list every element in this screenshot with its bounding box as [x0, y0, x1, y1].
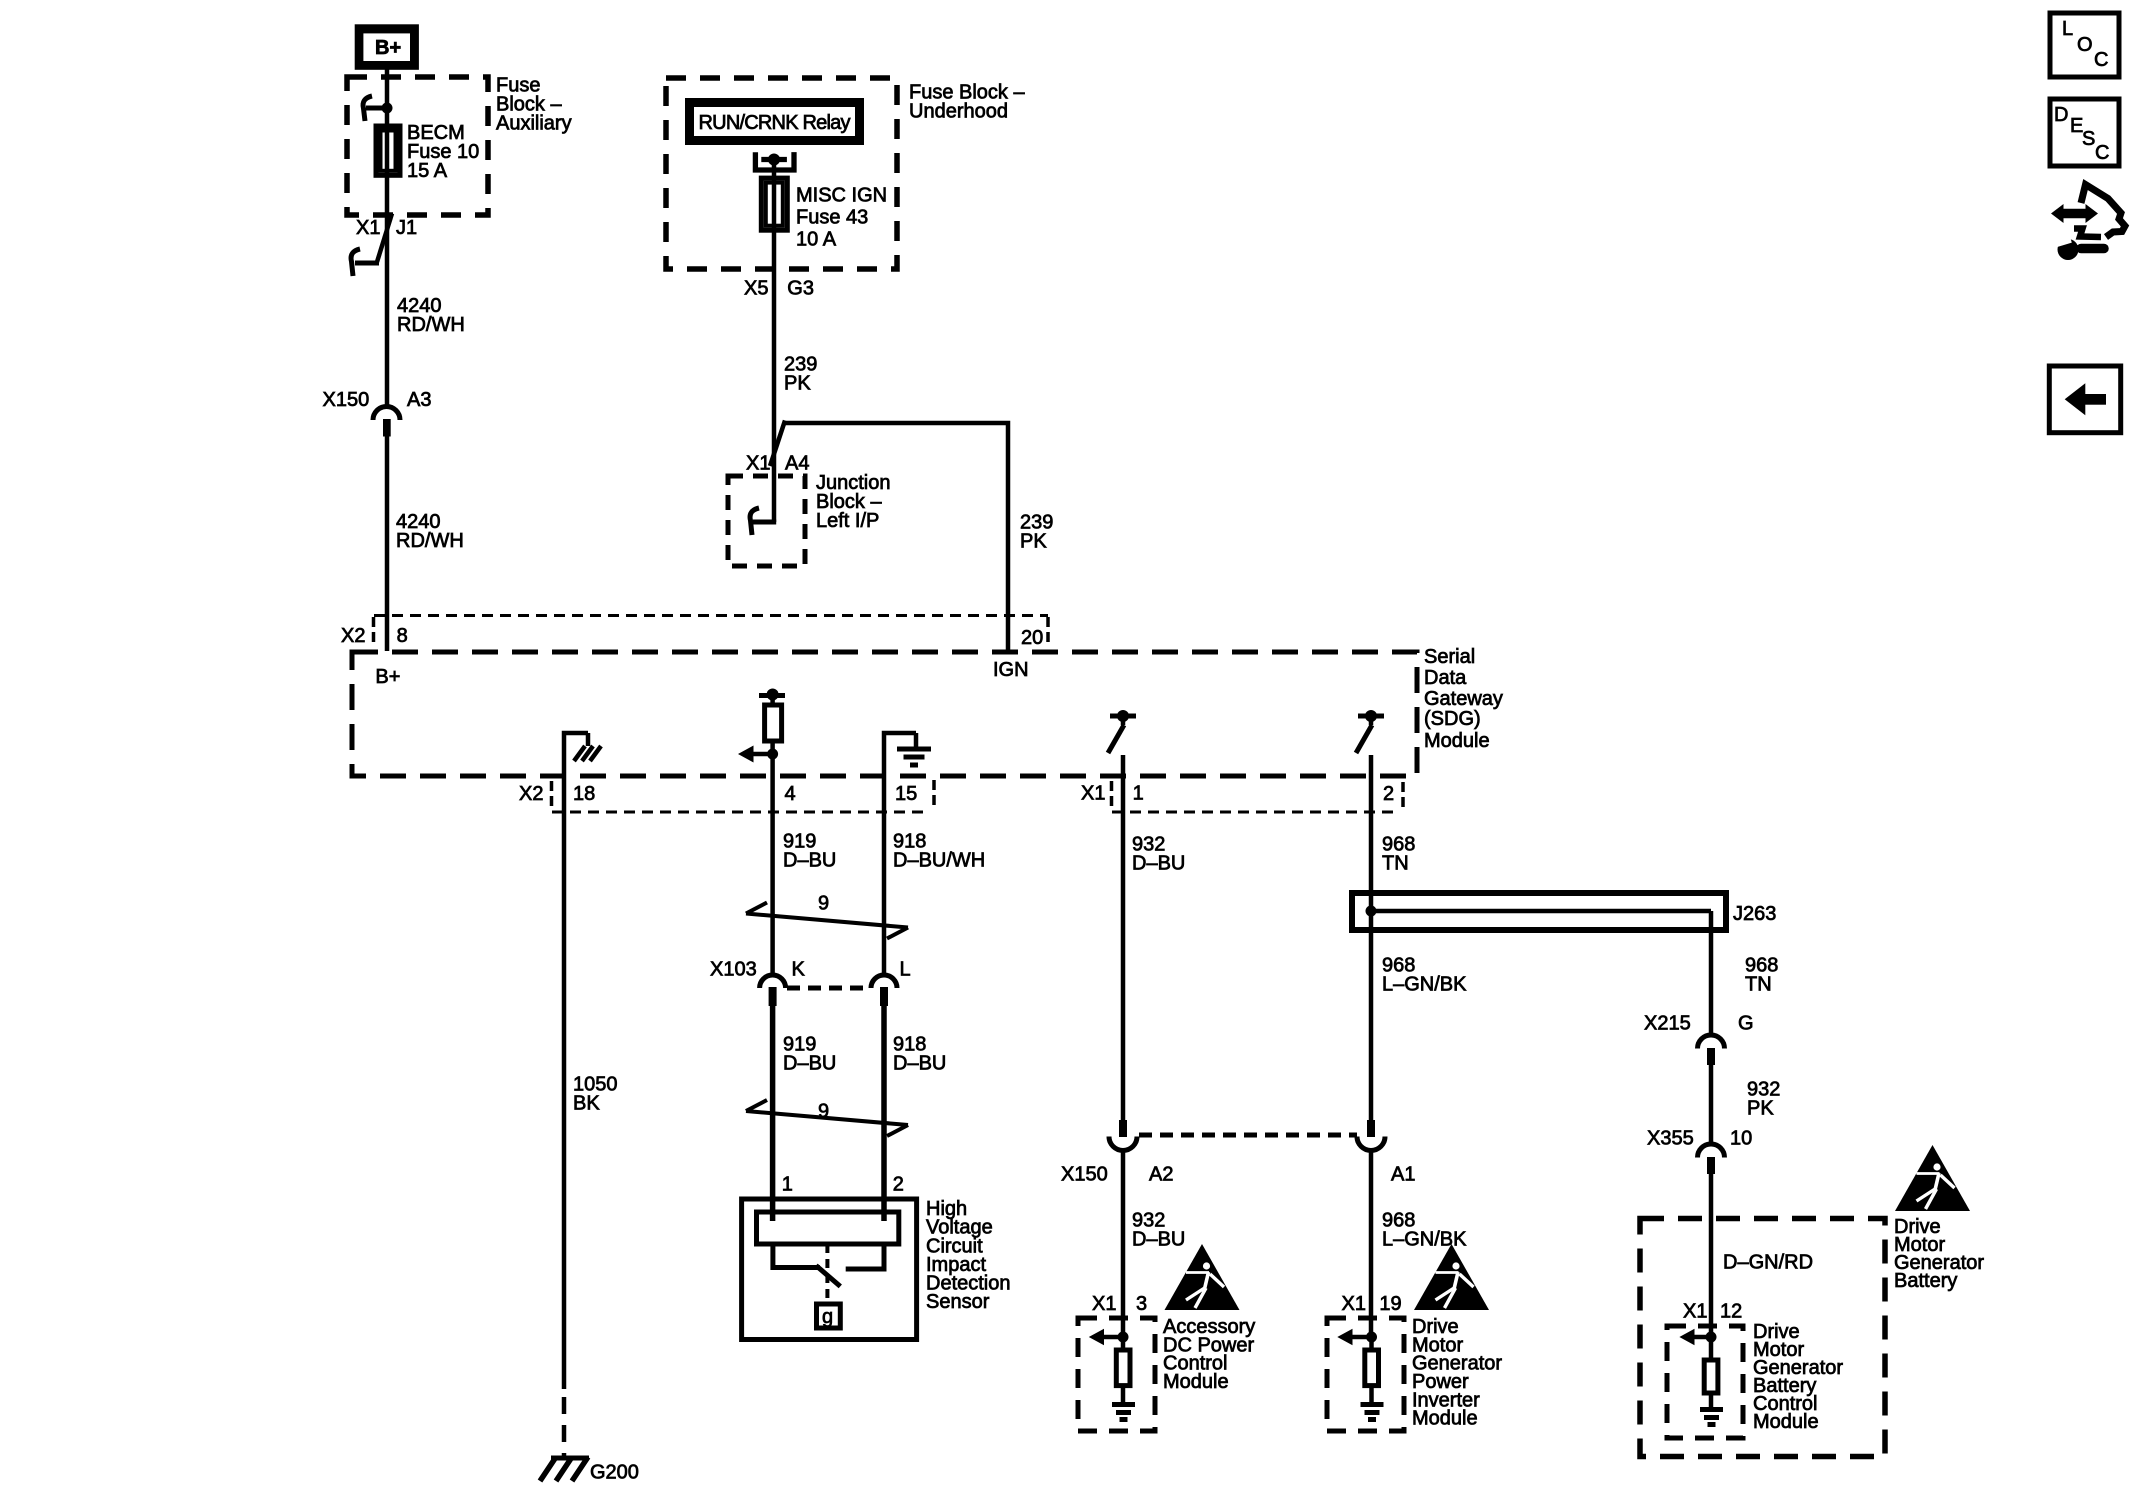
label: X215 G: [1644, 1013, 1754, 1035]
node: bus junction dot inside fuse block: [382, 103, 393, 114]
wire: 932 PK from X215 to X355: [1709, 1064, 1714, 1145]
switch: impact sensor blade: [816, 1266, 840, 1287]
svg-text:10 A: 10 A: [796, 229, 837, 251]
wire: 1050 BK from SDG pin 18 to G200: [562, 776, 567, 1389]
svg-text:X103: X103: [710, 959, 757, 981]
label: Drive Motor Generator Power Inverter Module: [1412, 1316, 1502, 1430]
resistor: SDG serial data pull-up at pin 4: [759, 689, 785, 742]
icon: DESC navigation box: [2050, 99, 2119, 166]
svg-text:D–BU: D–BU: [1132, 1228, 1185, 1250]
svg-text:X215: X215: [1644, 1013, 1691, 1035]
label: X103 K L: [710, 959, 911, 981]
twisted pair symbol 9 (upper): [746, 903, 908, 939]
resistor: accessory module load: [1116, 1337, 1130, 1404]
svg-text:MISC IGN: MISC IGN: [796, 185, 887, 207]
svg-text:X1: X1: [1092, 1293, 1116, 1315]
svg-text:C: C: [2095, 142, 2109, 164]
label: Junction Block - Left I/P: [816, 472, 891, 532]
svg-text:D–BU: D–BU: [783, 849, 836, 871]
fuse BECM Fuse 10 15 A: [376, 126, 400, 175]
node: junction dot battery control module: [1706, 1332, 1717, 1343]
svg-text:Module: Module: [1753, 1411, 1819, 1433]
connector X103 K: [760, 975, 786, 1006]
svg-text:Battery: Battery: [1894, 1270, 1957, 1292]
svg-text:D–BU: D–BU: [783, 1052, 836, 1074]
wire: dashed actuator line of impact sensor: [825, 1244, 829, 1303]
connector X215 G: [1698, 1035, 1725, 1065]
label: X355 10: [1647, 1128, 1752, 1150]
module box: drive motor generator power inverter module: [1327, 1318, 1404, 1431]
wire: sensor internal left bracket: [773, 1244, 820, 1268]
SDG module connector row X2 top: thin dashed line: [374, 614, 1048, 617]
icon: back arrow box: [2049, 366, 2120, 433]
fuse block auxiliary dashed box: [347, 77, 488, 215]
svg-text:9: 9: [818, 1100, 829, 1122]
svg-text:J1: J1: [396, 217, 417, 239]
arrow: signal arrow accessory module: [1089, 1329, 1123, 1346]
svg-text:Auxiliary: Auxiliary: [496, 112, 572, 134]
svg-text:15 A: 15 A: [407, 160, 448, 182]
fuse MISC IGN Fuse 43 10 A: [761, 178, 787, 230]
svg-text:(SDG): (SDG): [1424, 708, 1481, 730]
label: wire 919 D-BU (upper): [783, 831, 836, 872]
switch: SDG internal switch at pin 2: [1356, 710, 1384, 753]
switch: SDG internal switch at pin 1: [1108, 710, 1136, 753]
label: X150 A3: [323, 389, 432, 411]
wire: 4240 RD/WH from X150 A3 to SDG module pin 8: [385, 436, 390, 651]
svg-text:Module: Module: [1424, 730, 1490, 752]
svg-text:Gateway: Gateway: [1424, 688, 1503, 710]
wire: IGN branch to SDG pin 20: [784, 423, 1008, 651]
svg-text:Underhood: Underhood: [909, 100, 1008, 122]
svg-text:A4: A4: [785, 453, 809, 475]
svg-text:A2: A2: [1149, 1164, 1173, 1186]
svg-text:X2: X2: [519, 783, 543, 805]
module box: Serial Data Gateway (SDG) Module dashed border: [352, 652, 1417, 776]
wire: D-GN/RD from X355 into drive motor generator battery: [1709, 1174, 1714, 1337]
connector tick right of pin 15: [932, 780, 936, 810]
svg-text:X150: X150: [1061, 1164, 1108, 1186]
SDG module connector row bottom right segment: thin dashed line: [1112, 811, 1398, 814]
svg-text:D–GN/RD: D–GN/RD: [1723, 1252, 1813, 1274]
svg-text:2: 2: [893, 1174, 904, 1196]
arrow: serial data signal arrow at pin 4: [738, 746, 773, 763]
connector X103 L: [871, 975, 897, 1006]
svg-text:19: 19: [1379, 1293, 1401, 1315]
label: pin names B+ and IGN inside module: [375, 659, 1028, 688]
wire: SDG pin 4 internal lead: [770, 741, 775, 776]
ground: chassis ground symbol at pin 18: [574, 733, 601, 761]
resistor: inverter module load: [1365, 1337, 1379, 1404]
svg-text:Sensor: Sensor: [926, 1291, 990, 1313]
wire: 968 TN from SDG pin 2 into J263: [1369, 755, 1374, 911]
node: junction dot accessory module: [1118, 1332, 1129, 1343]
connector crossing X1 J1: slash: [377, 214, 392, 263]
label: X1 3 (accessory module pins): [1092, 1293, 1147, 1315]
svg-text:g: g: [822, 1306, 833, 1328]
svg-text:X1: X1: [1342, 1293, 1366, 1315]
label: wire 968 L-GN/BK (lower): [1382, 1210, 1467, 1251]
label: Drive Motor Generator Battery: [1894, 1216, 1984, 1292]
warning triangle: high voltage (accessory module): [1165, 1244, 1240, 1310]
label: twisted pair note 9 (lower): [818, 1100, 829, 1122]
svg-text:Left I/P: Left I/P: [816, 510, 879, 532]
svg-text:X1: X1: [356, 217, 380, 239]
svg-text:X5: X5: [744, 278, 768, 300]
svg-text:TN: TN: [1745, 973, 1772, 995]
node: g mass reference box: [817, 1304, 841, 1328]
wire: dashed tail of 1050 BK at G200: [562, 1397, 567, 1458]
label: X2 18 4 15 X1 1 2 (bottom connector row): [519, 783, 1394, 805]
svg-text:O: O: [2077, 34, 2093, 56]
label: X5 G3: [744, 278, 814, 300]
node: junction dot inverter module: [1366, 1332, 1377, 1343]
svg-text:L: L: [900, 959, 911, 981]
label: X2 8 20 (top connector row): [341, 625, 1043, 649]
svg-text:PK: PK: [1747, 1097, 1774, 1119]
svg-text:TN: TN: [1382, 852, 1409, 874]
label: Serial Data Gateway (SDG) Module: [1424, 646, 1503, 752]
svg-text:20: 20: [1021, 627, 1043, 649]
svg-text:G3: G3: [787, 278, 814, 300]
label: MISC IGN Fuse 43 10 A: [796, 185, 887, 251]
connector X150 A2: [1109, 1120, 1137, 1151]
svg-text:D–BU: D–BU: [893, 1052, 946, 1074]
svg-text:A3: A3: [407, 389, 431, 411]
svg-text:8: 8: [397, 625, 408, 647]
relay RUN/CRNK Relay: [685, 98, 864, 145]
svg-text:D–BU: D–BU: [1132, 852, 1185, 874]
label: wire 239 PK (left): [784, 354, 817, 395]
wire: dashed connector link K to L: [787, 986, 870, 991]
label: Fuse Block - Auxiliary: [496, 75, 572, 135]
label: G200: [590, 1462, 639, 1484]
connector crossing X1 A4: slash: [770, 421, 785, 467]
svg-text:C: C: [2094, 49, 2108, 71]
wire: terminal hook below fuse block auxiliary: [351, 249, 379, 276]
wire: 918 D-BU/WH from SDG pin 15 to X103 L: [882, 776, 887, 975]
connector tick between X1 and 1: [1110, 781, 1114, 811]
svg-text:B+: B+: [375, 666, 400, 688]
ground: accessory module internal ground: [1112, 1405, 1135, 1420]
twisted pair symbol 9 (lower): [746, 1100, 908, 1136]
node: junction dot at relay contact: [768, 154, 780, 166]
label: wire D-GN/RD: [1723, 1252, 1813, 1274]
svg-text:X2: X2: [341, 625, 365, 647]
svg-text:S: S: [2082, 128, 2095, 150]
svg-text:X150: X150: [323, 389, 370, 411]
ground: earth ground symbol at pin 15: [897, 733, 931, 765]
svg-text:G: G: [1738, 1013, 1754, 1035]
power symbol B+ box: [355, 24, 419, 70]
svg-text:3: 3: [1136, 1293, 1147, 1315]
wire: SDG internal ground lead pin 15: [884, 733, 916, 776]
wire: B+ feed from B+ box through BECM fuse to X150 A3: [385, 68, 390, 407]
connector tick right of pin 20: [1046, 617, 1050, 647]
label: wire 4240 RD/WH (lower): [396, 511, 464, 552]
relay contact bracket below RUN/CRNK relay: [755, 152, 794, 170]
label: X1 J1: [356, 217, 417, 239]
svg-text:IGN: IGN: [993, 659, 1029, 681]
svg-text:2: 2: [1383, 783, 1394, 805]
wire: 919 D-BU from X103 K to sensor pin 1: [770, 1006, 776, 1221]
module box: drive motor generator battery dashed box: [1640, 1219, 1885, 1457]
label: wire 239 PK (right): [1020, 512, 1053, 553]
sensor box: High Voltage Circuit Impact Detection Sensor: [742, 1199, 917, 1340]
module box: accessory DC power control module: [1078, 1318, 1155, 1431]
svg-text:A1: A1: [1391, 1164, 1415, 1186]
ground: inverter module internal ground: [1361, 1405, 1384, 1420]
svg-text:X355: X355: [1647, 1128, 1694, 1150]
svg-text:10: 10: [1730, 1128, 1752, 1150]
svg-text:Data: Data: [1424, 667, 1467, 689]
label: wire 1050 BK: [573, 1074, 618, 1115]
svg-text:Fuse 43: Fuse 43: [796, 207, 868, 229]
splice pack J263 bus bar: [1352, 893, 1726, 930]
module box: drive motor generator battery control module: [1667, 1326, 1743, 1438]
label: sensor pins 1 2: [782, 1174, 904, 1196]
wire: dashed connector link A2 to A1: [1139, 1133, 1357, 1138]
svg-text:D–BU/WH: D–BU/WH: [893, 849, 985, 871]
node: junction dot at pin 4 arrow: [767, 749, 778, 760]
svg-text:PK: PK: [1020, 530, 1047, 552]
fuse block underhood dashed box: [666, 78, 897, 269]
svg-text:K: K: [792, 959, 806, 981]
label: Fuse Block - Underhood: [909, 82, 1025, 123]
wire: sensor internal right bracket: [846, 1244, 884, 1269]
SDG module connector row bottom left segment: thin dashed line: [552, 811, 928, 814]
arrow: signal arrow inverter module: [1337, 1329, 1371, 1346]
wire: SDG internal ground lead pin 18: [564, 733, 588, 776]
label: twisted pair note 9 (upper): [818, 893, 829, 915]
svg-text:RD/WH: RD/WH: [397, 314, 465, 336]
sensor element bar: [757, 1212, 899, 1244]
wire: bus stub with hook inside fuse block auxiliary: [363, 96, 387, 121]
connector tick between X2 and 8: [372, 617, 376, 647]
svg-text:X1: X1: [1683, 1301, 1707, 1323]
connector X150 A3: [373, 407, 400, 437]
label: wire 932 D-BU (upper): [1132, 834, 1185, 875]
label: wire 968 TN (right): [1745, 955, 1778, 996]
label: wire 918 D-BU/WH: [893, 831, 985, 872]
svg-text:18: 18: [573, 783, 595, 805]
svg-text:J263: J263: [1733, 903, 1776, 925]
resistor: battery control module load: [1704, 1337, 1718, 1409]
wire: 239 PK from relay through MISC IGN fuse down to junction block: [772, 160, 777, 522]
svg-text:L: L: [2062, 18, 2073, 40]
svg-text:D: D: [2054, 104, 2068, 126]
warning triangle: high voltage (battery): [1895, 1145, 1970, 1211]
svg-text:L–GN/BK: L–GN/BK: [1382, 973, 1467, 995]
label: X1 19 (inverter module pins): [1342, 1293, 1402, 1315]
icon: LOC navigation box: [2050, 13, 2119, 77]
label: wire 919 D-BU (lower): [783, 1034, 836, 1075]
wire: 918 D-BU from X103 L to sensor pin 2: [881, 1006, 887, 1221]
svg-text:L–GN/BK: L–GN/BK: [1382, 1228, 1467, 1250]
svg-text:RUN/CRNK Relay: RUN/CRNK Relay: [699, 112, 851, 134]
wire: 932 D-BU from X150 A2 to accessory DC power control module: [1121, 1150, 1126, 1337]
label: wire 918 D-BU (lower): [893, 1034, 946, 1075]
label: Drive Motor Generator Battery Control Module: [1753, 1321, 1843, 1433]
wire: 919 D-BU from SDG pin 4 to X103 K: [770, 776, 775, 975]
ground: battery control module internal ground: [1700, 1410, 1723, 1425]
wire: 932 D-BU from SDG pin 1 to X150 A2: [1121, 755, 1126, 1120]
wire: 968 TN from J263 right end to X215 G: [1709, 911, 1714, 1036]
svg-text:G200: G200: [590, 1462, 639, 1484]
svg-text:B+: B+: [375, 37, 401, 59]
svg-text:BK: BK: [573, 1092, 600, 1114]
label: wire 932 PK: [1747, 1079, 1780, 1120]
svg-text:9: 9: [818, 893, 829, 915]
arrow: signal arrow battery control module: [1679, 1329, 1711, 1346]
label: X1 A4: [746, 453, 809, 475]
label: J263: [1733, 903, 1776, 925]
junction block left I/P dashed box: [728, 476, 805, 566]
svg-text:1: 1: [1133, 783, 1144, 805]
wire: terminal hook inside junction block: [750, 508, 776, 535]
label: wire 968 L-GN/BK (upper): [1382, 955, 1467, 996]
label: Accessory DC Power Control Module: [1163, 1316, 1255, 1393]
node: junction dot in J263: [1366, 906, 1377, 917]
svg-text:PK: PK: [784, 372, 811, 394]
connector tick between X2 and 18: [550, 781, 554, 811]
svg-text:X1: X1: [746, 453, 770, 475]
label: wire 968 TN (left): [1382, 834, 1415, 875]
connector tick right of pin 2: [1401, 782, 1405, 808]
label: wire 932 D-BU (lower): [1132, 1210, 1185, 1251]
svg-text:Module: Module: [1412, 1408, 1478, 1430]
ground G200: [540, 1457, 589, 1481]
wire: 968 L-GN/BK from X150 A1 to power inverter module: [1369, 1150, 1374, 1337]
svg-text:12: 12: [1720, 1301, 1742, 1323]
connector X355 10: [1698, 1144, 1725, 1174]
svg-text:4: 4: [785, 783, 796, 805]
warning triangle: high voltage (inverter module): [1414, 1244, 1489, 1310]
label: BECM Fuse 10 15 A: [407, 122, 479, 182]
label: X1 12 (battery control module pins): [1683, 1301, 1742, 1323]
connector X150 A1: [1357, 1120, 1385, 1151]
label: High Voltage Circuit Impact Detection Sensor: [926, 1198, 1011, 1313]
label: X150 A2 A1: [1061, 1164, 1415, 1186]
svg-text:RD/WH: RD/WH: [396, 530, 464, 552]
svg-text:Serial: Serial: [1424, 646, 1475, 668]
icon: diagnostic jump symbol with wrench: [2051, 185, 2125, 261]
svg-text:1: 1: [782, 1174, 793, 1196]
svg-text:15: 15: [895, 783, 917, 805]
label: wire 4240 RD/WH (upper): [397, 295, 465, 336]
wire: 968 L-GN/BK from J263 to X150 A1: [1369, 911, 1374, 1120]
svg-text:Module: Module: [1163, 1371, 1229, 1393]
svg-text:X1: X1: [1081, 783, 1105, 805]
